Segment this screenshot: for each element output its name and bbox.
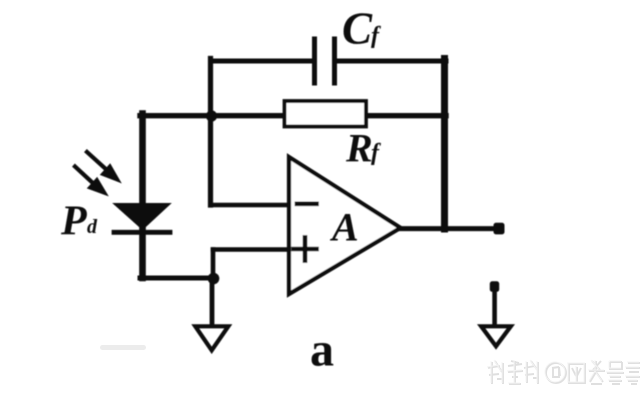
wire resistor row right xyxy=(366,113,446,118)
capacitor C_f plates xyxy=(312,39,317,83)
node output terminal xyxy=(494,223,505,235)
op-amp plus symbol xyxy=(294,247,317,252)
light arrow 2 xyxy=(75,167,107,195)
resistor R_f body xyxy=(285,101,367,127)
svg-text:A: A xyxy=(329,205,359,250)
char 5 xyxy=(568,364,586,383)
op-amp U1 body xyxy=(289,157,401,294)
char 8 xyxy=(626,363,640,384)
photodiode P_d cathode bar xyxy=(114,230,170,235)
faint smudge xyxy=(100,345,146,350)
wire output xyxy=(399,226,500,231)
wire right loop vertical xyxy=(441,59,448,230)
wire resistor row left xyxy=(140,113,284,118)
wire minus input horizontal xyxy=(211,203,290,208)
svg-text:d: d xyxy=(87,216,98,238)
svg-text:a: a xyxy=(310,324,334,377)
ground right xyxy=(481,326,511,346)
char 2 xyxy=(508,361,523,384)
char 6 xyxy=(589,361,605,384)
char 3 xyxy=(524,361,539,384)
light arrow 1 xyxy=(87,152,120,182)
svg-text:R: R xyxy=(345,126,373,171)
wire ground stub left xyxy=(210,278,215,323)
wire top feedback (left of capacitor) xyxy=(211,59,313,64)
char 7 xyxy=(607,362,624,384)
watermark xyxy=(488,361,640,384)
wire top feedback (right of capacitor) xyxy=(337,59,446,64)
wire left loop vertical (cap top to junction to minus branch) xyxy=(208,59,213,206)
char 4 (@) xyxy=(546,363,566,383)
node junction at inverting branch xyxy=(206,110,217,121)
char 1 xyxy=(488,361,503,384)
ground left xyxy=(195,326,228,350)
node junction at ground branch xyxy=(208,273,220,285)
wire bottom anode horizontal xyxy=(140,276,214,281)
svg-text:C: C xyxy=(342,4,373,54)
photodiode P_d triangle xyxy=(114,204,171,230)
wire photodiode anode vertical xyxy=(139,230,146,278)
wire photodiode cathode vertical xyxy=(139,114,146,208)
op-amp minus symbol xyxy=(297,202,317,207)
wire plus input horizontal xyxy=(213,247,289,252)
node reference terminal xyxy=(490,281,499,292)
svg-text:P: P xyxy=(60,199,87,245)
wire plus branch vertical xyxy=(211,250,216,279)
wire ground stub right xyxy=(492,290,497,323)
